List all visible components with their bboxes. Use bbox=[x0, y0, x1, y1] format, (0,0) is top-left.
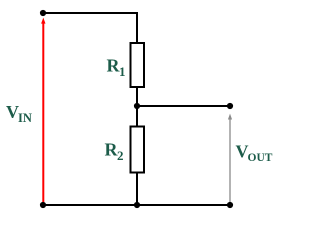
wire bottom rail bbox=[43, 204, 230, 206]
node top-left bbox=[40, 10, 46, 16]
node bottom-right bbox=[227, 202, 233, 208]
label R1 bbox=[107, 56, 126, 80]
node bottom-left bbox=[40, 202, 46, 208]
Vin source arrow (red) bbox=[41, 18, 45, 205]
node Vout top bbox=[227, 103, 233, 109]
wire R1 bottom to R2 top bbox=[136, 86, 138, 127]
svg-text:OUT: OUT bbox=[248, 152, 273, 164]
label VOUT bbox=[236, 142, 273, 165]
svg-text:1: 1 bbox=[119, 64, 126, 79]
wire R2 bottom to bottom rail bbox=[136, 172, 138, 205]
wire top horizontal + down to R1 bbox=[43, 13, 137, 43]
node mid junction bbox=[134, 103, 140, 109]
label VIN bbox=[6, 102, 32, 125]
node bottom mid bbox=[134, 202, 140, 208]
label R2 bbox=[105, 140, 124, 164]
svg-text:IN: IN bbox=[18, 111, 32, 125]
resistor R2 bbox=[131, 127, 145, 173]
resistor R1 bbox=[131, 43, 145, 87]
svg-text:2: 2 bbox=[117, 148, 124, 163]
wire mid horizontal to Vout node bbox=[137, 105, 230, 107]
Vout arrow (gray) bbox=[228, 114, 232, 205]
